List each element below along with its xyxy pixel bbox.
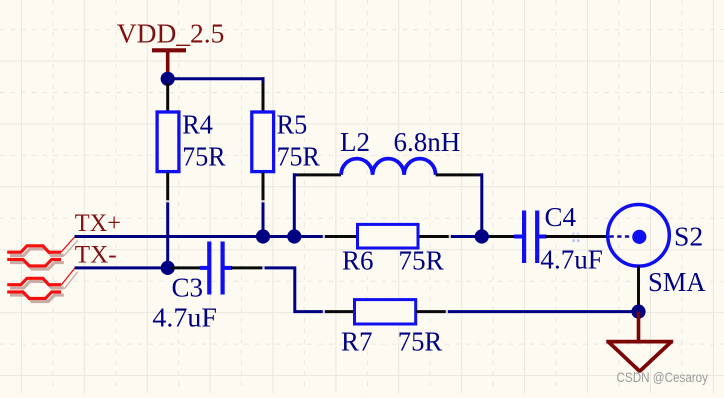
wire R7 to S2 shield	[448, 310, 639, 313]
pin end gaps	[168, 200, 451, 311]
svg-text:75R: 75R	[182, 142, 225, 172]
resistor R5	[252, 112, 274, 172]
svg-text:CSDN @Cesaroy: CSDN @Cesaroy	[617, 370, 709, 385]
svg-text:C4: C4	[545, 202, 577, 232]
capacitor C4	[514, 211, 546, 264]
pin C4.1	[490, 235, 523, 238]
pin C3.2	[231, 266, 262, 269]
svg-text:L2: L2	[340, 127, 370, 157]
resistor R6	[358, 224, 419, 248]
pin R6.2	[419, 235, 451, 238]
pin R4.2	[166, 173, 169, 203]
svg-text:75R: 75R	[398, 327, 442, 357]
wire VDD rail horizontal	[168, 77, 265, 80]
pin R7.1	[325, 310, 354, 313]
junction VDD node	[161, 72, 175, 86]
resistor R4	[157, 112, 179, 172]
svg-text:TX+: TX+	[75, 208, 121, 237]
junction S2 shield / GND	[631, 305, 645, 319]
connector S2 dashed center pin line	[610, 235, 630, 238]
inductor L2	[341, 159, 436, 175]
connector S2 circle	[608, 205, 670, 267]
pin number mark S2 pin 1	[572, 232, 580, 242]
callout line TX- directive	[61, 268, 78, 288]
svg-text:R6: R6	[342, 246, 374, 276]
connector S2 center pin dot	[632, 230, 646, 244]
svg-text:C3: C3	[172, 273, 204, 303]
wire R6 to C4 node	[452, 235, 491, 238]
pin C3.1	[172, 266, 208, 269]
pin R6.1	[325, 235, 356, 238]
pin L2.2	[436, 173, 479, 176]
wire TX- from port to C3	[75, 266, 173, 269]
svg-text:TX-: TX-	[75, 240, 117, 269]
svg-text:R4: R4	[182, 110, 213, 140]
differential pair directive TX-	[7, 278, 64, 301]
svg-text:6.8nH: 6.8nH	[394, 127, 461, 157]
callout line TX+ directive	[61, 237, 78, 256]
svg-text:75R: 75R	[277, 142, 320, 172]
capacitor C3	[200, 242, 232, 295]
pin R5.1	[262, 82, 265, 111]
ground symbol	[606, 312, 673, 372]
junction TX+ / L2 branch	[287, 229, 301, 243]
junction TX- / R4	[161, 261, 175, 275]
svg-text:R5: R5	[277, 110, 308, 140]
svg-text:4.7uF: 4.7uF	[540, 245, 603, 275]
wire C3 to R7	[262, 268, 325, 312]
pin R7.2	[416, 310, 448, 313]
svg-text:S2: S2	[674, 221, 703, 252]
svg-text:VDD_2.5: VDD_2.5	[117, 19, 225, 49]
wire TX+ from port to R6	[75, 235, 326, 238]
svg-text:SMA: SMA	[648, 267, 706, 297]
pin C4.2 to S2.1	[546, 235, 608, 238]
pin S2.2 shield	[637, 266, 640, 308]
svg-text:75R: 75R	[398, 246, 443, 276]
wire R5 to TX+ net	[262, 202, 265, 237]
junction TX+ / L2 / C4	[475, 229, 489, 243]
differential pair directive TX+	[7, 246, 64, 269]
junction TX+ / R5	[256, 229, 270, 243]
wire L2 down to TX+	[480, 173, 483, 236]
pin R5.2	[262, 173, 265, 203]
pin R4.1	[166, 82, 169, 111]
svg-text:R7: R7	[341, 327, 373, 357]
pin L2.1	[297, 173, 341, 176]
power symbol VDD_2.5	[152, 50, 186, 77]
wire TX+ up to L2	[293, 173, 296, 236]
svg-text:4.7uF: 4.7uF	[152, 303, 217, 333]
wire R4 to TX- net	[166, 202, 169, 268]
resistor R7	[355, 300, 416, 324]
